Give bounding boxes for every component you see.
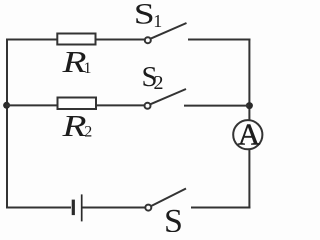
svg-text:1: 1 — [84, 60, 92, 77]
resistor R2 — [58, 98, 97, 110]
wire battery to S — [83, 207, 146, 209]
svg-text:S: S — [134, 0, 155, 31]
switch S2 blade — [151, 89, 187, 104]
node junction right — [246, 102, 253, 109]
wire S to bottom right corner — [191, 207, 250, 209]
ammeter A — [233, 120, 262, 149]
wire S2 to right junction — [184, 105, 249, 107]
switch S1 blade — [151, 23, 187, 39]
wire middle left segment — [6, 104, 58, 106]
svg-text:1: 1 — [153, 11, 162, 31]
resistor R1 — [57, 34, 95, 45]
svg-text:R: R — [61, 108, 86, 143]
wire right vertical upper — [248, 39, 250, 121]
wire R2 to S2 — [97, 104, 145, 106]
wire S1 to top right corner — [188, 39, 250, 41]
switch S2 pivot — [145, 103, 151, 109]
wire bottom left segment — [6, 207, 71, 209]
node junction left — [3, 102, 10, 109]
wire right vertical lower — [248, 150, 250, 209]
svg-text:A: A — [238, 117, 261, 152]
svg-text:2: 2 — [154, 72, 164, 94]
svg-text:2: 2 — [84, 124, 92, 141]
svg-text:S: S — [164, 203, 183, 232]
wire left vertical — [6, 40, 8, 208]
wire R1 to S1 — [97, 39, 145, 41]
battery negative plate — [72, 200, 75, 216]
wire top left segment — [6, 39, 57, 41]
switch S blade — [151, 189, 186, 207]
switch S pivot — [145, 205, 151, 211]
battery positive plate — [81, 194, 83, 221]
switch S1 pivot — [145, 37, 151, 43]
